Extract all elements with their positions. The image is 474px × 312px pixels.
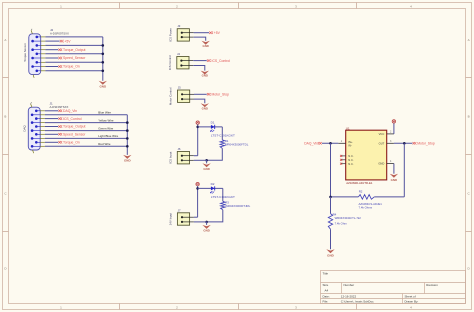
pin 3 (OUT) <box>387 142 394 144</box>
wire to LED D2 <box>198 187 223 189</box>
svg-text:GND: GND <box>203 229 209 233</box>
junction <box>205 221 208 224</box>
net label ICS_Control <box>58 117 81 121</box>
wire J2 pin6 <box>45 57 58 59</box>
junction <box>126 121 129 124</box>
wire GND bus vertical <box>126 115 128 155</box>
wire J6 pin2 <box>194 159 207 161</box>
wire J3 pin1 <box>194 32 209 34</box>
junction <box>102 70 105 73</box>
svg-text:ICS Input: ICS Input <box>168 151 172 163</box>
svg-text:D1: D1 <box>211 121 215 125</box>
svg-text:12-16-2022: 12-16-2022 <box>341 294 357 298</box>
ground <box>99 81 107 89</box>
net label Speed_Sensor <box>58 132 86 136</box>
resistor R1 <box>220 139 249 148</box>
ground <box>202 222 210 233</box>
svg-text:GND: GND <box>327 253 335 257</box>
net label Torque_Output <box>58 125 85 129</box>
wire J4 pin1 <box>193 60 206 62</box>
power port VCC <box>392 120 395 123</box>
svg-text:Green Wire: Green Wire <box>98 126 113 130</box>
power port +5V <box>196 121 199 124</box>
wire J5 pin1 <box>194 93 207 95</box>
svg-text:N.C.: N.C. <box>348 162 354 166</box>
wire power to J7 pin1 <box>197 186 199 217</box>
svg-text:24V Input: 24V Input <box>169 213 173 226</box>
svg-text:Motor_Stop: Motor_Stop <box>417 141 435 145</box>
ground <box>201 103 209 110</box>
svg-text:Motor_Stop: Motor_Stop <box>212 92 230 96</box>
voltage regulator U1 <box>341 126 392 185</box>
svg-text:ICS Power: ICS Power <box>168 28 172 42</box>
svg-text:+5V: +5V <box>214 31 221 35</box>
svg-text:Revision: Revision <box>426 283 438 287</box>
svg-text:Number: Number <box>344 283 355 287</box>
svg-text:GND: GND <box>203 167 209 171</box>
wire VCC <box>393 123 395 134</box>
junction <box>126 129 129 132</box>
resistor R2 <box>358 190 382 210</box>
svg-text:A-DSF09TSXX: A-DSF09TSXX <box>50 32 69 36</box>
resistor R4 <box>328 213 361 230</box>
svg-text:ICS_Control: ICS_Control <box>212 59 231 63</box>
wire J1 Green Wire to GND bus <box>45 130 127 132</box>
net label Torque_On <box>58 65 79 69</box>
wire OUT <box>394 142 413 144</box>
connector J3 (ICS Power) <box>168 24 193 42</box>
svg-text:N.C.: N.C. <box>348 154 354 158</box>
wire ADJ divider vertical <box>330 143 332 197</box>
svg-text:B: B <box>4 115 6 119</box>
pin N.C. <box>340 155 346 157</box>
svg-text:Torque_On: Torque_On <box>63 140 80 144</box>
svg-text:OUT: OUT <box>379 141 385 145</box>
wire divider bottom left <box>331 196 359 198</box>
wire J1 Red Wire to GND bus <box>45 145 127 147</box>
ground <box>390 174 398 182</box>
svg-text:A: A <box>468 38 470 42</box>
junction <box>329 142 332 145</box>
wire J2 pin2 <box>45 40 59 42</box>
svg-text:N.C.: N.C. <box>348 158 354 162</box>
net label DAQ_Vin <box>304 141 321 145</box>
pin 2 (VCC) <box>387 133 394 135</box>
ground <box>326 249 334 257</box>
svg-text:IN+: IN+ <box>348 140 353 144</box>
connector J5 (Motor Control) <box>169 86 194 106</box>
svg-text:Size: Size <box>323 283 329 287</box>
svg-text:7.4k Ohms: 7.4k Ohms <box>359 205 373 209</box>
LED D1 <box>210 121 214 132</box>
net label Torque_On <box>58 140 79 144</box>
junction <box>205 159 208 162</box>
svg-text:Torque Sensor: Torque Sensor <box>23 43 27 62</box>
svg-text:GND: GND <box>99 85 107 89</box>
pin 4 (GND) <box>387 163 394 165</box>
wire R3 to GND <box>207 210 223 222</box>
svg-text:Torque_Output: Torque_Output <box>63 48 85 52</box>
svg-text:J5: J5 <box>178 86 181 90</box>
wire J2 pin8 <box>45 66 58 68</box>
svg-text:Light Blue Wire: Light Blue Wire <box>98 134 118 138</box>
svg-text:IN-: IN- <box>348 144 352 148</box>
wire J6 pin1 <box>194 155 198 157</box>
ground <box>202 160 210 171</box>
power port +5V <box>196 182 199 185</box>
svg-text:J6: J6 <box>178 147 181 151</box>
wire J2 pin7 to GND bus <box>45 61 102 63</box>
svg-text:Date:: Date: <box>323 294 330 298</box>
svg-text:Red Wire: Red Wire <box>98 142 111 146</box>
connector J6 (ICS Input) <box>168 147 193 164</box>
net label +5V <box>209 31 220 35</box>
svg-text:Torque_Output: Torque_Output <box>63 125 85 129</box>
svg-text:Speed_Sensor: Speed_Sensor <box>63 56 86 60</box>
pin 1 (IN) <box>338 142 345 144</box>
wire to LED D1 <box>198 126 223 128</box>
wire J7 pin2 <box>194 221 207 223</box>
junction <box>102 53 105 56</box>
svg-text:DAQ_Vin: DAQ_Vin <box>304 141 318 145</box>
svg-text:Motor Control: Motor Control <box>169 87 173 105</box>
wire J2 pin1 to GND bus <box>45 36 102 38</box>
ground <box>123 155 131 163</box>
connector J7 (24V Input) <box>169 208 194 225</box>
svg-text:VCC: VCC <box>379 132 385 136</box>
svg-text:GND: GND <box>124 159 132 163</box>
wire LED to R1 <box>221 127 223 140</box>
wire R4 to GND <box>330 229 332 249</box>
wire J4 pin2 to GND <box>193 66 204 71</box>
connector J1 (DAQ) <box>23 101 69 153</box>
wire DAQ_Vin to pin1 <box>322 142 338 144</box>
svg-text:DAQ_Vin: DAQ_Vin <box>63 109 77 113</box>
net label Motor_Stop <box>207 92 229 96</box>
svg-text:Blue Wire: Blue Wire <box>98 111 111 115</box>
wire J1 (ICS_Control) <box>45 118 58 120</box>
pin N.C. <box>340 163 346 165</box>
wire J1 Blue Wire to GND bus <box>45 114 127 116</box>
junction <box>403 142 406 145</box>
svg-text:C:\Users\..\main.SchDoc: C:\Users\..\main.SchDoc <box>341 300 374 304</box>
connector J4 (ICS Control) <box>168 52 193 70</box>
svg-text:A4: A4 <box>325 289 329 293</box>
svg-text:Speed_Sensor: Speed_Sensor <box>63 132 86 136</box>
wire J2 pin4 <box>45 49 58 51</box>
svg-text:7.4k Ohm: 7.4k Ohm <box>335 222 348 226</box>
net label +5V <box>60 39 71 43</box>
svg-text:+5V: +5V <box>64 39 71 43</box>
wire J1 (DAQ_Vin) <box>45 110 58 112</box>
wire J1 Yellow Wire to GND bus <box>45 122 127 124</box>
svg-text:GND: GND <box>202 74 208 78</box>
wire J5 pin2 to GND <box>194 99 205 103</box>
svg-text:GND: GND <box>391 178 397 182</box>
svg-text:J4: J4 <box>177 52 180 56</box>
wire R2 to OUT <box>374 196 404 198</box>
pin N.C. <box>340 159 346 161</box>
svg-text:GND: GND <box>202 44 208 48</box>
svg-text:WR04X3041FTL-7k2: WR04X3041FTL-7k2 <box>335 216 362 220</box>
svg-text:Sheet of: Sheet of <box>405 294 416 298</box>
svg-text:R2: R2 <box>359 190 363 194</box>
svg-text:GND: GND <box>202 106 208 110</box>
wire R1 to GND <box>207 148 223 160</box>
svg-text:File:: File: <box>323 300 329 304</box>
svg-text:Drawn By:: Drawn By: <box>405 300 419 304</box>
junction <box>102 44 105 47</box>
svg-text:J7: J7 <box>178 208 181 212</box>
net label ICS_Control <box>207 59 230 63</box>
LED D2 <box>210 182 214 193</box>
junction <box>102 61 105 64</box>
wire J1 Light Blue Wire to GND bus <box>45 137 127 139</box>
svg-text:WR04X3000FTJRL: WR04X3000FTJRL <box>225 204 250 208</box>
net label Torque_Output <box>58 48 85 52</box>
svg-text:GND: GND <box>378 162 384 166</box>
svg-text:ICS Control: ICS Control <box>168 55 172 70</box>
svg-text:B: B <box>468 115 470 119</box>
wire OUT feedback vertical <box>403 143 405 197</box>
junction <box>196 126 199 129</box>
svg-text:WR04X3000FTDL: WR04X3000FTDL <box>225 143 249 147</box>
junction <box>329 196 332 199</box>
wire J3 pin2 to GND <box>194 37 206 41</box>
svg-text:LTST-C191KGKT: LTST-C191KGKT <box>211 133 235 137</box>
svg-text:Title: Title <box>323 272 329 276</box>
wire LED to R3 <box>222 188 224 201</box>
svg-text:J3: J3 <box>177 24 180 28</box>
wire J7 pin1 <box>194 216 198 218</box>
net label Speed_Sensor <box>58 56 86 60</box>
wire J1 (Torque_On) <box>45 141 58 143</box>
wire to R4 <box>330 197 332 214</box>
junction <box>126 137 129 140</box>
junction <box>196 187 199 190</box>
net label Motor_Stop <box>413 141 435 145</box>
ground <box>202 41 210 48</box>
svg-text:AZ1084D-ADJTR-E1: AZ1084D-ADJTR-E1 <box>346 181 373 185</box>
wire J2 pin3 to GND bus <box>45 44 102 46</box>
svg-text:DAQ: DAQ <box>23 125 27 132</box>
resistor R3 <box>221 201 251 210</box>
svg-text:Torque_On: Torque_On <box>63 65 80 69</box>
wire GND pin <box>393 164 395 174</box>
ground <box>201 71 209 78</box>
net label DAQ_Vin <box>58 109 77 113</box>
wire J1 (Torque_Output) <box>45 126 58 128</box>
svg-text:Yellow Wire: Yellow Wire <box>98 118 114 122</box>
junction <box>126 145 129 148</box>
svg-text:A: A <box>4 38 6 42</box>
wire J2 pin9 to GND bus <box>45 70 102 72</box>
wire power to J6 pin1 <box>197 124 199 155</box>
wire J2 pin5 to GND bus <box>45 53 102 55</box>
connector J2 (Torque Sensor) <box>23 28 69 78</box>
wire J1 (Speed_Sensor) <box>45 133 58 135</box>
wire GND bus vertical <box>102 37 104 81</box>
svg-text:ICS_Control: ICS_Control <box>63 117 82 121</box>
svg-text:D2: D2 <box>211 182 215 186</box>
